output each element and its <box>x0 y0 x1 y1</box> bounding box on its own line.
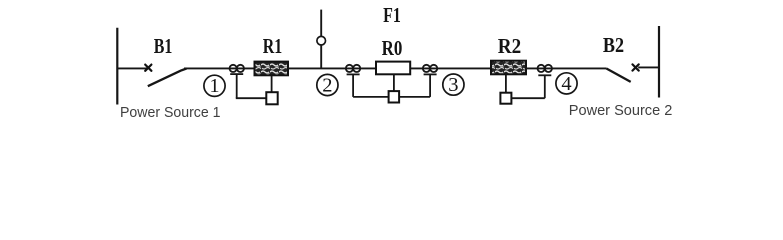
svg-text:F1: F1 <box>383 3 401 27</box>
current transformer CT2L secondary bar <box>347 73 360 75</box>
current transformer CT1 windings <box>230 65 237 72</box>
node 3 <box>443 74 464 96</box>
breaker mark x of B1 <box>145 65 151 71</box>
switch blade B1 (open) <box>148 69 187 87</box>
svg-text:R1: R1 <box>263 34 283 58</box>
wire: stub from breaker B2 to bus 2 <box>638 66 659 68</box>
wire: CT3 secondary lead up <box>544 75 546 98</box>
wire: R0 trip lead to relay box S0 <box>393 74 395 91</box>
current transformer CT2R windings <box>423 65 430 72</box>
bus: power source 1 busbar <box>116 28 118 105</box>
wire: R1 trip lead to relay box S1 <box>271 75 273 92</box>
svg-text:Power Source 2: Power Source 2 <box>569 102 673 119</box>
wire: S2 to CT3 horizontal <box>511 97 544 99</box>
current transformer CT2R secondary bar <box>424 73 437 75</box>
wire: CT2R secondary lead down <box>429 74 431 97</box>
current transformer CT1 secondary bar <box>230 73 243 75</box>
relay box S0 <box>389 91 400 102</box>
current transformer CT2L windings <box>346 65 353 72</box>
recloser R2 body <box>491 61 526 75</box>
svg-text:4: 4 <box>561 73 571 95</box>
wire: CT1 lead to relay box S1 <box>236 97 266 99</box>
current transformer CT3 secondary bar <box>538 74 551 76</box>
fuse F1 cutout circle <box>317 36 326 45</box>
recloser R1 body <box>255 62 289 76</box>
wire: feeder section blade B1 to R1 <box>184 67 255 69</box>
wire: R2 trip lead to relay box S2 <box>505 74 507 92</box>
wire: fuse tap branch riser <box>320 10 322 69</box>
wire: CT1 secondary lead down <box>236 74 238 98</box>
breaker mark x of B2 <box>633 64 639 70</box>
relay box S1 <box>266 92 277 104</box>
svg-text:R0: R0 <box>382 36 403 60</box>
svg-text:1: 1 <box>209 75 219 97</box>
svg-text:3: 3 <box>448 74 458 96</box>
wire: CT2L secondary lead down <box>352 74 354 97</box>
current transformer CT3 windings <box>538 65 545 72</box>
svg-text:2: 2 <box>322 75 332 97</box>
relay box S2 <box>500 93 511 104</box>
wire: relay bus under R0 <box>353 96 430 98</box>
node 4 <box>556 73 577 95</box>
svg-text:Power Source 1: Power Source 1 <box>120 104 221 121</box>
node 2 <box>317 74 338 96</box>
switch blade B2 (open) <box>606 68 631 82</box>
wire: feeder section R1 to R0 <box>288 67 376 69</box>
node 1 <box>204 75 225 97</box>
svg-text:B2: B2 <box>603 33 624 57</box>
wire: stub from bus 1 to breaker B1 <box>117 67 147 69</box>
wire: feeder section R2 to blade B2 <box>526 67 606 69</box>
wire: feeder section R0 to R2 <box>410 67 491 69</box>
bus: power source 2 busbar <box>658 26 660 98</box>
svg-text:R2: R2 <box>498 34 521 58</box>
svg-text:B1: B1 <box>154 34 173 58</box>
recloser R0 body <box>376 62 410 75</box>
